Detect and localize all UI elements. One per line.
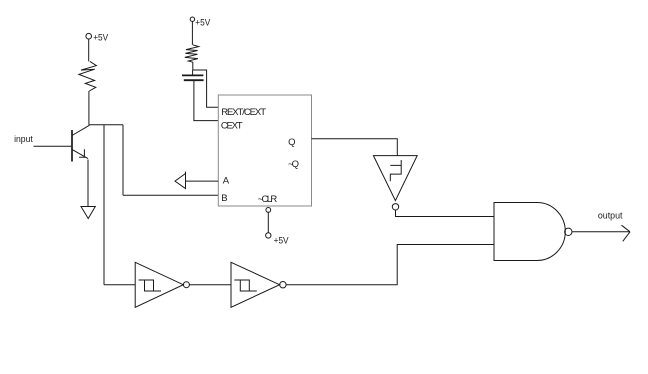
svg-text:A: A [223,175,230,186]
schmitt inverter U2 [373,156,417,210]
~CLR bubble [266,208,271,213]
node A arrow [175,172,186,189]
svg-text:output: output [598,210,623,221]
ground [81,207,95,219]
wire (collector node) [89,124,123,126]
resistor R1 [79,61,97,91]
one-shot U1 [218,95,311,206]
svg-text:+5V: +5V [195,17,211,28]
wire (output) with arrowhead [572,231,630,233]
wire [192,70,194,75]
wire (Q output) [312,139,398,156]
wire (to pin B) [123,194,218,196]
+5V terminal left [86,32,109,43]
svg-text:+5V: +5V [93,32,109,43]
wire (to NAND input 2) [286,245,494,285]
+5V terminal middle [190,17,211,28]
NAND gate U5 [494,203,572,261]
wire [122,125,124,196]
wire [103,125,105,285]
wire [189,284,231,286]
wire (emitter) [87,160,89,207]
wire [104,284,135,286]
wire [88,91,90,125]
svg-text:REXT/CEXT: REXT/CEXT [221,107,266,118]
svg-text:Q: Q [288,137,295,148]
wire [191,21,193,44]
wire [88,39,90,61]
resistor R2 [185,45,199,70]
svg-text:B: B [221,193,227,204]
wire (to CEXT) [194,80,218,120]
wire (to REXT/CEXT) [193,70,219,107]
schmitt inverter U3 [135,262,189,307]
svg-text:CEXT: CEXT [221,121,243,132]
svg-text:input: input [14,134,33,145]
capacitor C1 [182,75,204,80]
wire (to NAND input 1) [396,210,495,217]
transistor Q1 [72,125,90,161]
svg-text:~Q: ~Q [288,159,299,170]
+5V terminal bottom [266,233,290,247]
schmitt inverter U4 [231,262,286,307]
wire (base) [34,145,73,147]
svg-text:+5V: +5V [274,235,290,246]
wire (to pin A) [186,180,219,182]
wire [267,212,269,232]
svg-text:~CLR: ~CLR [258,194,278,205]
